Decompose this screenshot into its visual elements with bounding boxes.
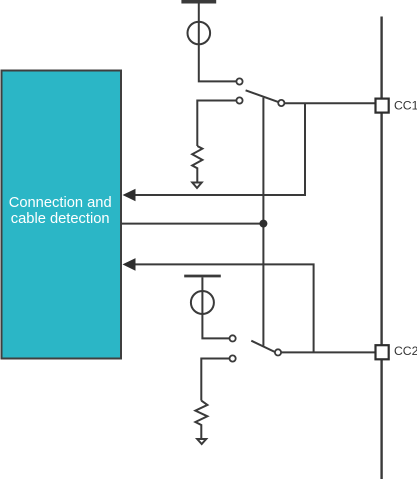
svg-text:Connection and: Connection and [9,195,112,211]
svg-text:CC2: CC2 [394,344,417,358]
svg-text:CC1: CC1 [394,98,417,112]
svg-text:cable detection: cable detection [11,211,110,227]
